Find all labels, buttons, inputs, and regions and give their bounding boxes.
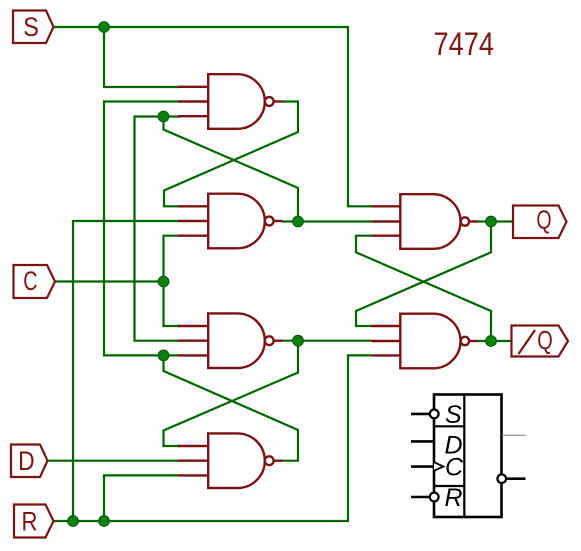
wire Q node down to U6 input 1 [356, 222, 491, 327]
svg-text:Q: Q [537, 325, 553, 355]
svg-text:7474: 7474 [434, 27, 494, 63]
IC pin D [411, 440, 434, 443]
IC pin R bubble [430, 493, 439, 502]
svg-text:S: S [23, 12, 39, 42]
IC pin C [411, 465, 434, 468]
wire R rail up to U2 input 2 [73, 221, 180, 521]
wire node A down to U1 input 1 [104, 27, 180, 87]
junction node C on clock line [158, 276, 169, 287]
output tag Q [513, 205, 567, 239]
IC divider below S [434, 425, 464, 427]
junction on R line 1 [68, 516, 79, 527]
junction at Q output [486, 216, 497, 227]
junction at U2 output [293, 216, 304, 227]
wire U1 input 2 down left rail to U3 input 3 [104, 102, 180, 356]
wire U3 output feedback down to U4 input 1 [164, 341, 299, 446]
NAND gate U3 [178, 313, 283, 368]
wire U5 output to Q tag [477, 220, 513, 222]
junction on U1 input 3 [158, 111, 169, 122]
IC pin R [411, 496, 430, 499]
NAND gate U2 [178, 194, 283, 249]
IC pin /Q bubble [497, 474, 506, 483]
junction at U3 output [293, 335, 304, 346]
wire D tag to U4 input 2 [47, 460, 180, 462]
svg-text:C: C [23, 266, 37, 296]
junction on R line 2 [99, 516, 110, 527]
IC pin S [411, 413, 430, 416]
IC symbol 7474 D flip-flop [411, 395, 526, 518]
svg-text:S: S [445, 401, 462, 429]
junction on U3 input 3 [158, 350, 169, 361]
wire C tag to node C and down to U3 input 1 [55, 282, 180, 327]
svg-text:D: D [18, 446, 35, 476]
wire U2 output to U5 input 2 [282, 220, 372, 222]
IC divider above R [434, 485, 464, 487]
wire U2 input 3 down to node C [164, 236, 181, 282]
IC pin /Q [506, 477, 525, 480]
wire /Q node up to U5 input 3 [356, 236, 491, 341]
svg-text:Q: Q [536, 205, 551, 235]
IC clock triangle [434, 462, 443, 471]
junction node A on S line [99, 22, 110, 33]
input tag C [14, 265, 56, 298]
NAND gate U5 [372, 194, 478, 249]
NAND gate U4 [178, 433, 283, 488]
junction at /Q output [486, 336, 497, 347]
input tag R [14, 505, 54, 538]
wire S tag to node A and across top to gate U5 input 1 [53, 27, 372, 206]
wire U4 output feedback up to U3 input 3 [164, 355, 299, 460]
svg-text:R: R [445, 484, 463, 512]
wire R tag across bottom and up to U6 input 3 [53, 355, 372, 521]
wire U2 output feedback up to U1 input 3 [164, 117, 299, 222]
wire U1 input 3 down rail to U3 input 2 [135, 117, 181, 341]
NAND gate U6 [372, 314, 478, 369]
wire U6 output to /Q tag [477, 340, 512, 342]
IC pin Q [502, 434, 526, 436]
IC divider vertical [463, 395, 465, 518]
wire R rail up to U4 input 3 [104, 475, 180, 521]
wire U1 output down to U2 input 1 [164, 102, 298, 207]
input tag D [11, 445, 48, 478]
IC pin S bubble [430, 410, 439, 419]
NAND gate U1 [178, 74, 283, 129]
svg-text:C: C [445, 454, 464, 482]
input tag S [13, 11, 54, 44]
output tag /Q [512, 325, 569, 357]
wire U3 output to U6 input 2 [282, 340, 372, 342]
IC body [434, 395, 502, 518]
svg-text:R: R [22, 507, 38, 537]
